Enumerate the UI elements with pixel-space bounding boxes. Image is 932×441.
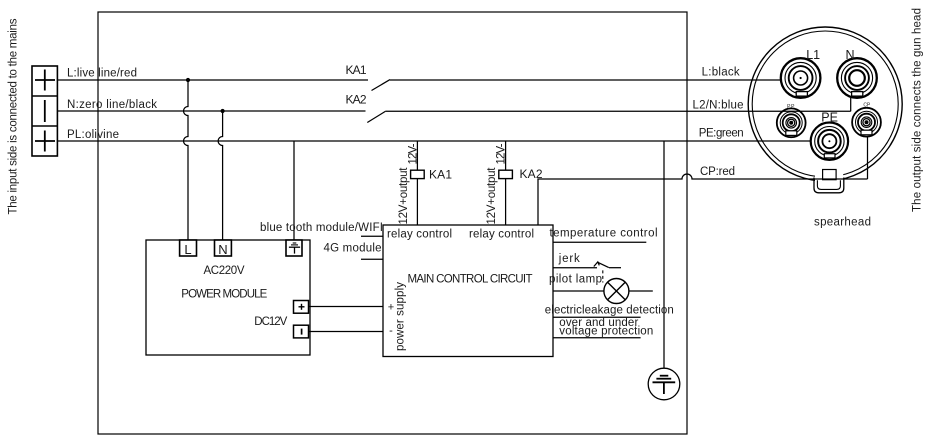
wire voltage protection stub	[553, 337, 641, 339]
switch contact KA1	[372, 80, 782, 91]
svg-text:voltage protection: voltage protection	[559, 326, 653, 338]
terminal N bar symbol	[44, 100, 46, 122]
svg-text:12V+output: 12V+output	[486, 167, 498, 225]
svg-text:N: N	[845, 48, 854, 62]
main control circuit U2 box	[383, 225, 553, 357]
svg-text:relay control: relay control	[387, 229, 452, 241]
svg-text:+: +	[388, 302, 394, 314]
svg-text:KA1: KA1	[346, 63, 367, 77]
pilot lamp HL	[553, 279, 653, 304]
svg-text:N: N	[218, 242, 227, 257]
svg-text:spearhead: spearhead	[814, 217, 871, 229]
terminal L on power module	[180, 240, 197, 257]
pin N	[837, 58, 877, 98]
svg-text:PL:olivine: PL:olivine	[67, 129, 119, 141]
svg-text:P.P: P.P	[787, 104, 795, 110]
relay coil KA2 branch	[499, 141, 513, 225]
terminal PE plus symbol	[35, 131, 55, 152]
junction dot L	[186, 78, 190, 82]
earth symbol in circle	[648, 368, 680, 400]
pin L1	[781, 58, 821, 98]
wire earth drop	[663, 141, 665, 368]
svg-text:DC12V: DC12V	[254, 316, 287, 328]
svg-text:jerk: jerk	[558, 253, 580, 265]
svg-text:L2/N:blue: L2/N:blue	[693, 100, 744, 112]
wire N bus	[57, 110, 365, 112]
terminal earth on power module	[286, 240, 302, 256]
terminal N on power module	[215, 240, 232, 257]
svg-text:12V-: 12V-	[496, 143, 508, 164]
gun head bottom tab	[814, 170, 844, 193]
wire 12V plus	[309, 306, 384, 308]
svg-text:The output side connects the g: The output side connects the gun head	[912, 8, 924, 212]
dashed link to lamp	[602, 270, 604, 282]
wire leakage stub	[553, 316, 641, 318]
wire 12V minus	[309, 331, 384, 333]
terminal block XT input	[32, 66, 57, 156]
svg-text:MAIN CONTROL CIRCUIT: MAIN CONTROL CIRCUIT	[408, 274, 533, 286]
svg-text:L:black: L:black	[702, 67, 740, 79]
pin CP	[852, 108, 881, 137]
svg-text:KA1: KA1	[429, 168, 452, 182]
enclosure border frame	[98, 12, 687, 434]
relay coil KA1 branch	[411, 141, 425, 225]
svg-text:pilot lamp: pilot lamp	[549, 274, 602, 286]
terminal L plus symbol	[35, 70, 55, 91]
svg-text:12V+output: 12V+output	[398, 167, 410, 225]
wire N drop to power module with hop	[218, 111, 222, 240]
power module U1 box	[146, 240, 310, 355]
wire CP net from control box to gun head	[538, 174, 868, 225]
terminal + on power module	[294, 301, 309, 314]
gun head connector outline	[748, 27, 902, 181]
svg-text:temperature control: temperature control	[550, 228, 658, 240]
svg-text:CP: CP	[863, 102, 871, 108]
svg-text:12V-: 12V-	[408, 143, 420, 164]
jerk switch	[553, 262, 621, 268]
svg-text:KA2: KA2	[346, 93, 367, 107]
svg-text:blue tooth module/WIFI: blue tooth module/WIFI	[260, 222, 383, 234]
svg-text:N:zero line/black: N:zero line/black	[67, 99, 157, 111]
wire L bus	[57, 79, 368, 81]
svg-text:L:live line/red: L:live line/red	[67, 68, 137, 80]
svg-text:-: -	[389, 325, 393, 337]
junction dot N	[221, 109, 225, 113]
svg-text:CP:red: CP:red	[700, 166, 735, 178]
wire temperature control stub	[553, 241, 646, 243]
svg-text:4G module: 4G module	[324, 243, 382, 255]
wire PL/PE bus	[57, 140, 811, 142]
pin PP	[777, 108, 806, 137]
wire 4G stub	[361, 258, 383, 260]
svg-text:L1: L1	[806, 48, 820, 62]
svg-text:electricleakage detection: electricleakage detection	[545, 305, 674, 317]
svg-text:relay control: relay control	[469, 229, 534, 241]
svg-text:POWER MODULE: POWER MODULE	[181, 288, 267, 300]
wire L drop to power module with hops	[184, 80, 189, 240]
svg-text:AC220V: AC220V	[204, 265, 245, 277]
svg-text:The input side is connected to: The input side is connected to the mains	[8, 18, 20, 214]
wire PE drop to power module	[293, 141, 295, 240]
terminal - on power module	[294, 325, 309, 338]
svg-text:power supply: power supply	[395, 282, 407, 351]
svg-text:PE:green: PE:green	[699, 128, 744, 140]
svg-text:L: L	[184, 242, 191, 257]
svg-text:PE: PE	[821, 111, 838, 125]
wire bluetooth stub	[361, 235, 383, 237]
switch contact KA2	[367, 98, 850, 123]
pin PE	[811, 123, 848, 160]
